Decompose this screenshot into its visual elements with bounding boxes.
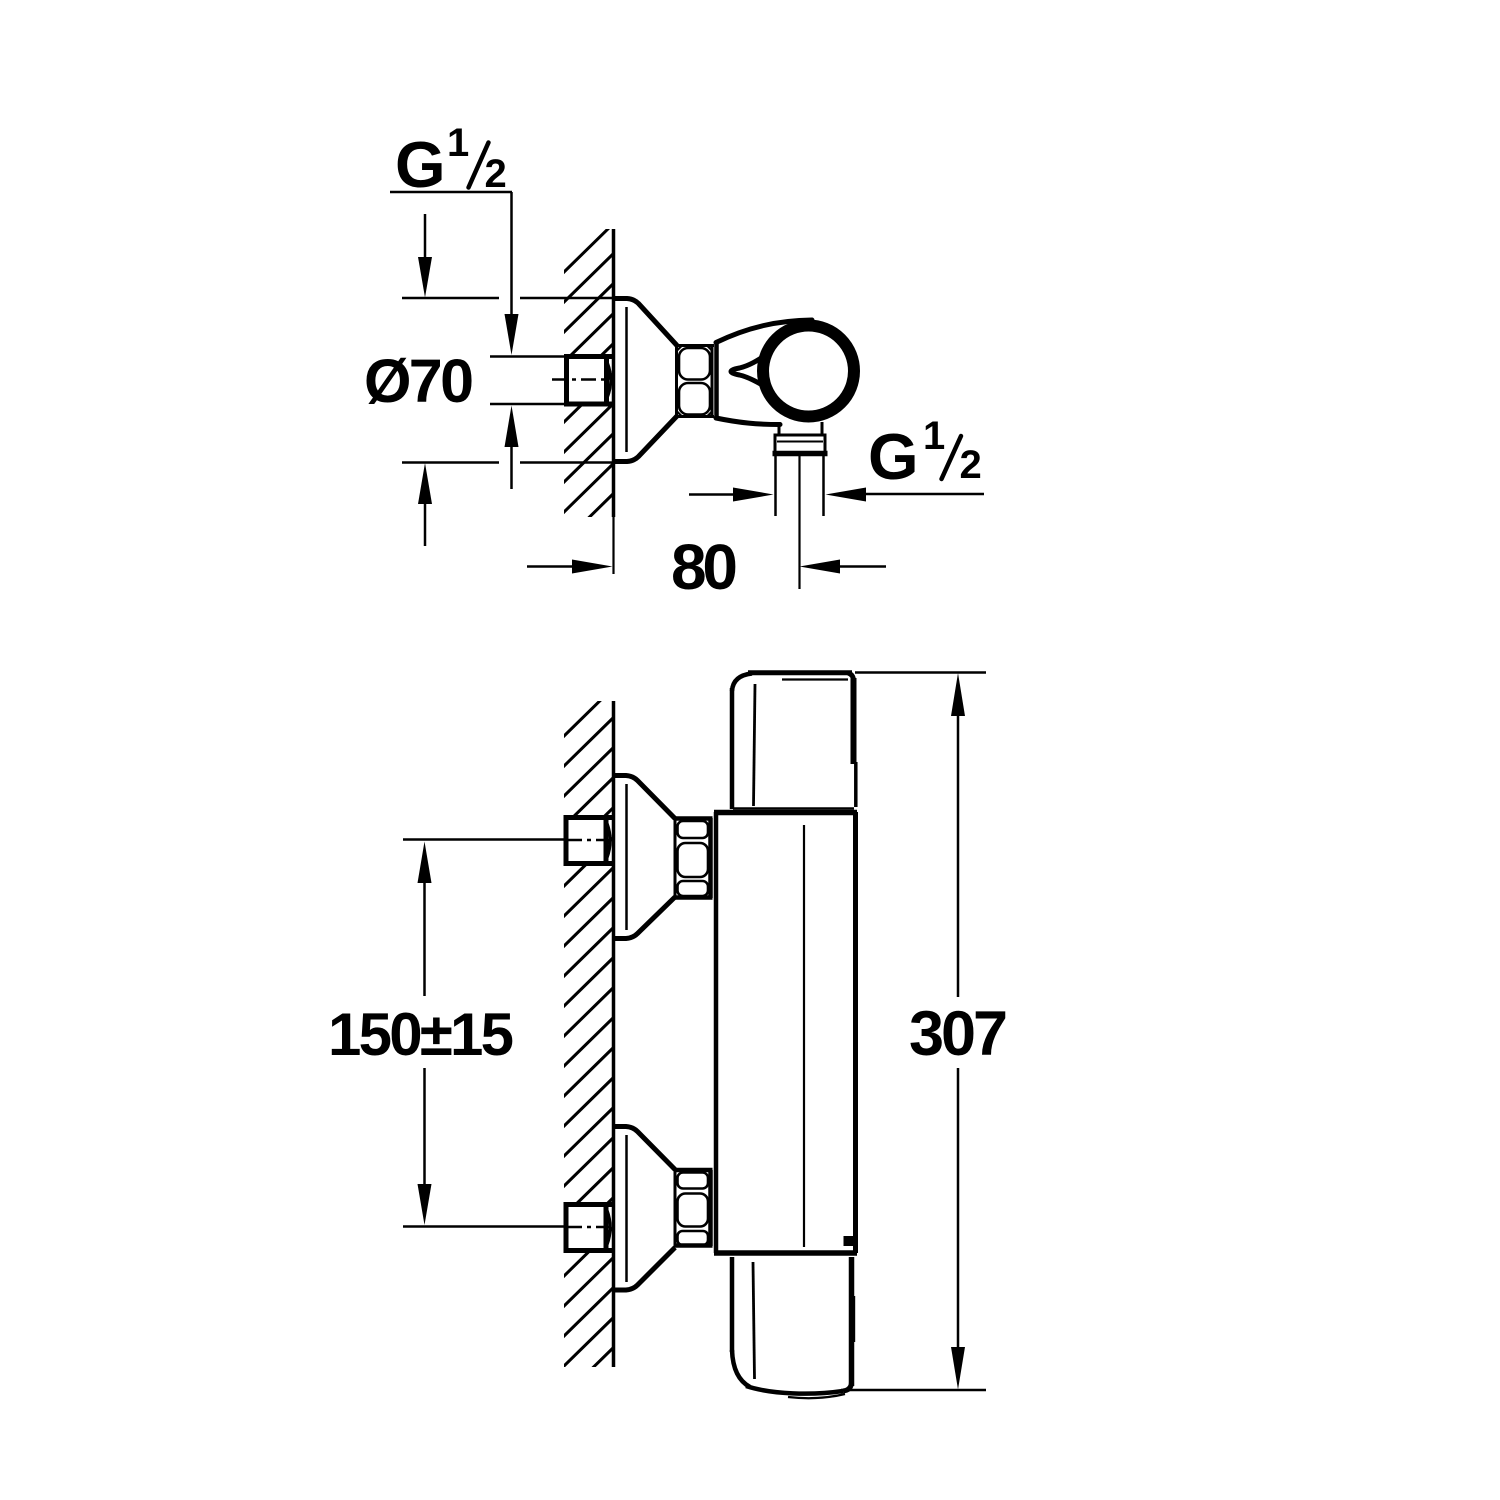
upper union centreline (568, 839, 611, 842)
dimension 150±15 line and arrows (418, 842, 432, 1226)
dimension Ø70 arrows (418, 214, 432, 546)
svg-text:Ø70: Ø70 (364, 347, 474, 415)
mixer barrel body (front view) (714, 812, 857, 1253)
wall union square fitting (side view) (567, 357, 615, 405)
centreline of wall union (side view) (552, 378, 611, 381)
hose union collar (773, 435, 828, 454)
escutcheon face ring line (side view) (625, 307, 628, 452)
svg-text:1: 1 (923, 414, 945, 458)
svg-text:307: 307 (909, 999, 1008, 1069)
dimension 80 line and arrows (527, 560, 886, 574)
wall face line (side view) (612, 229, 616, 574)
dimension 150±15 extension lines (403, 840, 565, 1227)
upper union hex nut (front view) (674, 818, 713, 898)
barrel highlight line (803, 825, 805, 1247)
lower escutcheon cone (front view) (612, 1127, 675, 1291)
temperature pointer lever (731, 350, 775, 393)
svg-text:80: 80 (671, 531, 738, 603)
upper escutcheon cone (front view) (612, 776, 675, 939)
shower hose thread (776, 456, 824, 516)
hose centreline (798, 456, 800, 589)
union hex nut (side view) (675, 344, 714, 418)
label G 1/2 (wall connection thread, side view) (395, 121, 507, 201)
upper wall union square fitting (front view) (566, 818, 614, 864)
escutcheon cone (side view) (612, 299, 677, 462)
svg-text:2: 2 (960, 443, 982, 487)
lower wall union square fitting (front view) (566, 1205, 614, 1251)
stop button tab on barrel (844, 1236, 857, 1246)
lower union centreline (568, 1226, 611, 1229)
lower escutcheon face ring line (625, 1135, 628, 1282)
svg-text:G: G (868, 420, 919, 493)
svg-text:G: G (395, 128, 446, 201)
svg-text:2: 2 (485, 152, 507, 196)
inlet thread outline lines (side view) (490, 357, 566, 405)
wall hatching (side view) (563, 223, 614, 603)
bottom handle cap (front view) (732, 1257, 853, 1398)
thermostat knob ring (763, 326, 854, 417)
top handle cap (front view) (732, 673, 856, 809)
leader underline of left G 1/2 label (390, 191, 512, 194)
wall face line (front view) (612, 701, 616, 1367)
label G 1/2 (hose thread) (868, 414, 982, 493)
valve body outline (side view) (716, 320, 812, 425)
fraction slash of left G 1/2 label (469, 143, 489, 188)
valve body left face (side view) (714, 342, 719, 418)
outlet stub under knob (779, 422, 822, 435)
upper escutcheon face ring line (625, 784, 628, 930)
svg-text:1: 1 (447, 121, 469, 165)
fraction slash of right G 1/2 label (942, 436, 962, 479)
leader line with arrows pointing at inlet thread (505, 192, 519, 489)
dimension 307 line and arrows (951, 673, 965, 1390)
dimension Ø70 extension lines (escutcheon diameter) (402, 298, 612, 463)
svg-text:150±15: 150±15 (328, 1001, 514, 1068)
hose thread dimension arrows with G 1/2 leader underline (689, 488, 984, 502)
lower union hex nut (front view) (674, 1170, 713, 1246)
dimension 307 extension lines (841, 673, 986, 1391)
wall hatching (front view) (563, 687, 614, 1457)
